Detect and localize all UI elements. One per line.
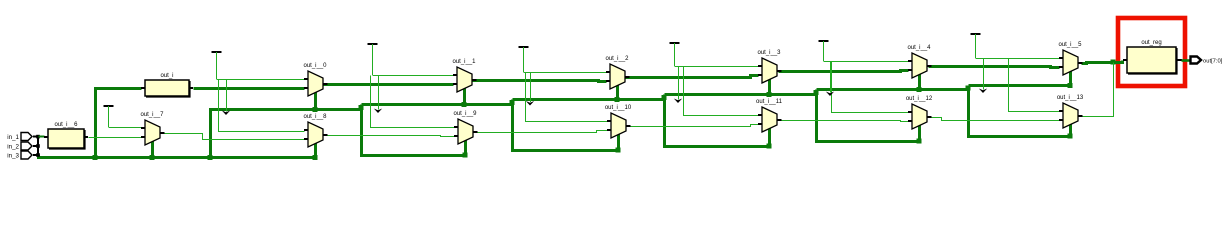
net continuation arrow b3 [674,66,682,103]
svg-text:out_i__0: out_i__0 [303,63,327,69]
mux out_i__2 [605,56,629,89]
wire midline5 horizontal [817,88,969,91]
wire out_i__3 select to midline4 [768,80,771,95]
junction out_i__8 select on bus1 end [313,155,318,160]
tie-off stub T-1 [104,106,114,127]
mux out_i__12 [906,96,933,129]
wire T1 branch to out_i__9 upper input [371,76,455,128]
junction midline2-bus3 node [510,100,515,105]
wire midline4 horizontal [665,93,817,96]
junction midline1-bus2 node [359,105,364,110]
wire midline5 [815,90,818,95]
mux out_i__1 [452,59,476,92]
junction out_i__10 select on bus3 end [616,148,621,153]
mux out_i__4 [907,45,931,78]
mux out_i__3 [757,50,781,83]
input port in_1 [7,133,32,142]
net continuation arrow b1 [374,75,382,113]
mux out_i__7 [140,112,164,145]
junction midline3-bus4 node [662,95,667,100]
junction out_i__0 select [313,107,318,112]
junction out_i__4 select [917,87,922,92]
wire out_i__2 output to out_i__3 lower input [626,76,759,78]
svg-text:out_i__12: out_i__12 [906,96,933,102]
wire bus5 segment [817,95,920,142]
wire out_i__1 select to midline2 [463,89,466,105]
input tie node [33,136,38,155]
wire bus3 segment [513,105,619,151]
wire T3 branch to out_i__11 upper input [684,67,759,116]
wire T2 to out_i__2 upper input [524,72,607,74]
wire out_reg output stub [1176,59,1182,61]
svg-text:out_i__8: out_i__8 [303,114,327,120]
wire midline4 [663,95,666,100]
wire vertical x95 up to out_i input [96,89,142,158]
junction bus1 / vertical x210 [208,155,213,160]
wire input node to out_i__6 input [39,136,45,138]
wire bus4 segment [665,100,770,147]
svg-text:out_i__3: out_i__3 [757,50,781,56]
net continuation arrow b5 [979,58,987,93]
wire T4 to out_i__4 upper input [824,61,909,63]
highlight box around out_reg [1118,18,1185,86]
tie-off stub T4 [819,41,829,61]
junction out_i__12 select on bus5 end [917,139,922,144]
svg-text:in_2: in_2 [7,144,19,151]
svg-text:out_i__11: out_i__11 [756,99,783,105]
junction out_i__13 feedback on out_reg input [1111,60,1116,65]
wire T2 branch to out_i__10 upper input [526,73,608,122]
wire out_i__13 output up to out_reg input net [1082,63,1114,117]
mux out_i__0 [303,63,327,96]
wire T3 to out_i__3 upper input [675,66,759,68]
net continuation arrow b0 [222,79,230,115]
output port out[7:0] [1191,57,1223,65]
wire T-1 to out_i__7 upper input [109,127,142,129]
input port in_3 [7,151,32,160]
wire out_i__0 select to midline1 [314,93,317,110]
svg-text:out_i: out_i [160,73,173,79]
junction out_i__5 select [1068,83,1073,88]
svg-text:out_i__6: out_i__6 [54,122,78,128]
tie-off stub T0 [212,52,222,79]
svg-text:in_1: in_1 [7,134,19,141]
wire bus1 from input node along bottom [39,144,316,158]
tie-off stub T5 [971,34,981,58]
wire out_i__5 output to out_reg input [1082,61,1123,64]
wire out_i__10 output to out_i__11 lower input [631,125,759,127]
mux out_i__10 [605,105,632,138]
junction out_i__9 select on bus2 end [463,153,468,158]
tie-off stub T2 [519,47,529,72]
wire T0 to out_i__0 upper input [217,79,305,81]
svg-text:out_i__5: out_i__5 [1058,42,1082,48]
wire out_i__4 select to midline5 [918,75,921,90]
wire out_i__1 output to out_i__2 lower input [473,81,607,82]
register out_i__6 [44,122,88,149]
wire out_i__0 output to out_i__1 lower input [324,83,454,86]
svg-text:out_reg: out_reg [1141,40,1161,46]
mux out_i__13 [1057,95,1084,128]
net continuation arrow b2 [526,72,534,106]
svg-text:out_i__10: out_i__10 [605,105,632,111]
junction bus1 / vertical x95 [93,155,98,160]
svg-text:out_i__1: out_i__1 [452,59,476,65]
mux out_i__5 [1058,42,1082,75]
wire T5 to out_i__5 upper input [976,58,1060,60]
wire out_reg output to port [1182,59,1191,62]
wire midline6 horizontal [969,84,1072,87]
register out_i [141,73,193,97]
svg-text:out[7:0]: out[7:0] [1203,59,1223,65]
junction out_i__1 select [462,102,467,107]
svg-text:out_i__2: out_i__2 [605,56,629,62]
wire vertical x210 up to midline1 [211,110,362,158]
wire out_i__5 select to midline6 [1069,72,1072,86]
junction midline5-bus6 node [966,86,971,91]
wire T5 branch to out_i__13 upper input [1009,59,1060,112]
wire out_i__12 output to out_i__13 lower input [932,118,1060,121]
input port in_2 [7,142,32,151]
wire out_i__3 output to out_i__4 lower input [779,71,909,72]
wire out_i__8 output to out_i__9 lower input [328,136,455,137]
wire bus2 segment [362,105,466,156]
junction midline4-bus5 node [814,90,819,95]
junction out_i__3 select [767,92,772,97]
svg-text:out_i__9: out_i__9 [453,111,477,117]
register out_reg [1123,40,1180,74]
mux out_i__8 [303,114,327,147]
wire out_i__7 select to bus1 [151,142,154,158]
svg-text:out_i__13: out_i__13 [1057,95,1084,101]
wire midline6 [967,86,970,90]
mux out_i__9 [453,111,477,144]
svg-text:out_i__7: out_i__7 [140,112,164,118]
net continuation arrow b4 [826,61,834,96]
junction bus1 / out_i__7 select [150,155,155,160]
svg-text:in_3: in_3 [7,153,19,160]
wire midline3 horizontal [513,98,665,101]
wire out_i output to out_i__0 lower input [194,87,305,90]
wire out_i__6 output to out_i__7 lower input [89,137,142,139]
tie-off stub T3 [670,43,680,66]
junction out_i__2 select [615,97,620,102]
junction out_i__11 select on bus4 end [767,144,772,149]
wire T0 branch to out_i__8 upper input [219,80,305,132]
wire midline2 [362,103,513,106]
wire out_i__7 output to out_i__8 lower input [164,134,305,140]
wire midline1 down to bus2 and up jog to midline2 [360,105,363,110]
wire out_i__11 output to out_i__12 lower input [782,121,909,122]
wire out_i__4 output to out_i__5 lower input [929,67,1060,68]
wire out_i__2 select to midline3 [616,86,619,100]
wire T1 to out_i__1 upper input [373,75,454,77]
wire bus6 segment [969,90,1071,137]
wire midline3 [511,100,514,105]
wire out_i__9 output to out_i__10 lower input [478,131,608,133]
wire T4 branch to out_i__12 upper input [832,62,909,113]
junction out_i__13 select on bus6 end [1068,134,1073,139]
mux out_i__11 [756,99,783,132]
svg-text:out_i__4: out_i__4 [907,45,931,51]
tie-off stub T1 [368,44,378,75]
